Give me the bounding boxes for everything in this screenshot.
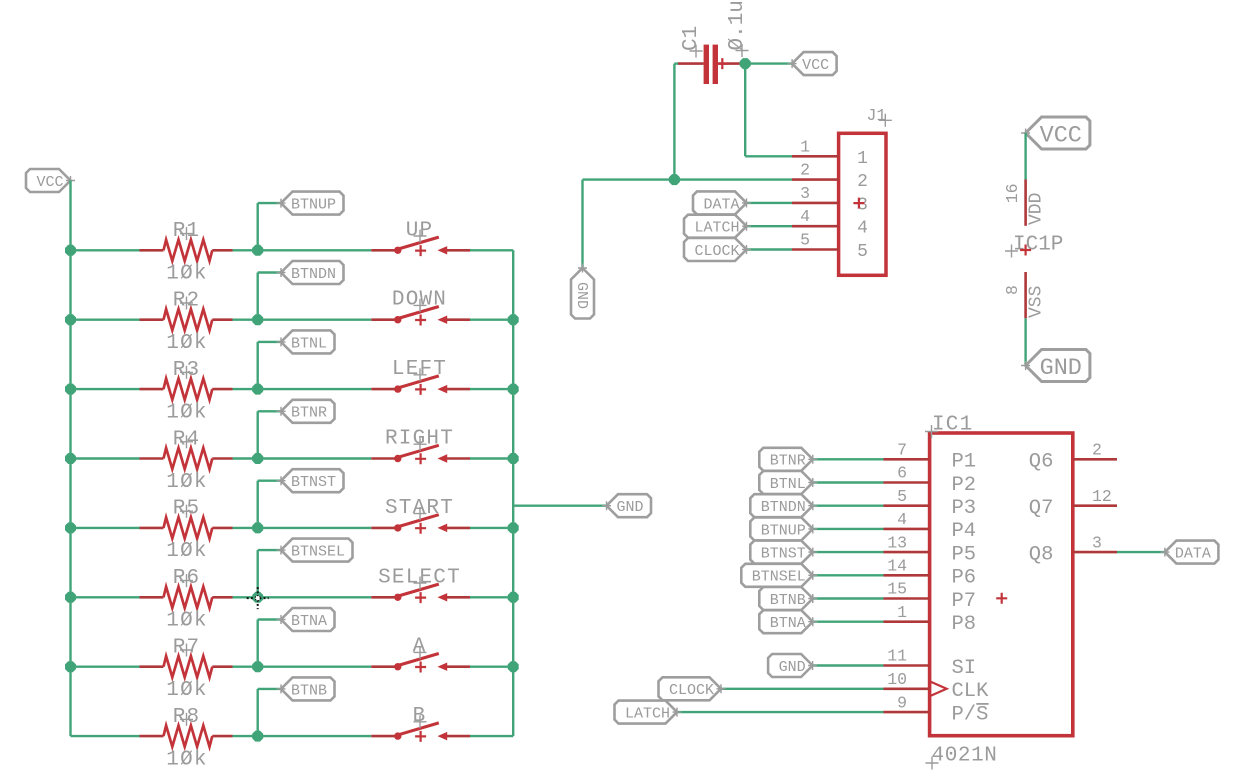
wire GND net to J1 pin 2 [674, 178, 792, 180]
net label BTNB (IC1) [759, 587, 817, 610]
resistor R4 10k [140, 428, 233, 494]
net label BTNL (IC1) [759, 471, 817, 494]
net label BTNSEL [277, 539, 353, 562]
svg-text:RIGHT: RIGHT [385, 428, 454, 451]
net label BTNL [277, 330, 335, 353]
wire VCC to VDD pin [1024, 133, 1026, 180]
wire BTNUP to P4 [813, 528, 884, 530]
junction left bus row 1 [65, 245, 76, 256]
net label BTNA (IC1) [759, 610, 817, 633]
svg-text:LATCH: LATCH [694, 220, 739, 237]
wire C1 to VCC flag [740, 62, 793, 64]
wire bus to R2 [71, 319, 140, 321]
switch LEFT [371, 358, 470, 395]
IC1 value 4021N [926, 745, 998, 770]
svg-text:SI: SI [952, 657, 977, 680]
svg-text:SELECT: SELECT [378, 566, 461, 589]
junction right bus row 4 [508, 453, 519, 464]
J1 pin 3 [792, 184, 868, 216]
junction left bus row 4 [65, 453, 76, 464]
resistor R3 10k [140, 359, 233, 425]
svg-text:7: 7 [897, 441, 907, 460]
net label BTNB [277, 677, 335, 700]
svg-text:1Øk: 1Øk [166, 332, 207, 355]
switch RIGHT [371, 428, 470, 465]
wire right GND bus [512, 250, 514, 736]
wire bus to R1 [71, 249, 140, 251]
junction tap BTNR [252, 453, 263, 464]
svg-text:1Øk: 1Øk [166, 401, 207, 424]
wire BTNL to P2 [813, 481, 884, 483]
svg-text:2: 2 [1092, 441, 1102, 460]
svg-text:Q6: Q6 [1029, 451, 1054, 474]
svg-text:P6: P6 [952, 567, 977, 590]
net label BTNST [277, 469, 344, 492]
wire tap to BTNUP [258, 203, 281, 250]
svg-text:BTNUP: BTNUP [291, 197, 336, 214]
svg-text:2: 2 [800, 161, 810, 180]
svg-text:IC1P: IC1P [1013, 234, 1063, 257]
wire BTNST to P5 [813, 551, 884, 553]
wire CLOCK to J1 [747, 248, 793, 250]
svg-text:GND: GND [573, 282, 590, 309]
wire GND net to GND flag [583, 180, 675, 268]
IC1P pin 8 VSS [1003, 272, 1047, 318]
wire VCC vertical bus (left) [71, 181, 140, 737]
wire R5 to switch START [233, 527, 372, 529]
svg-text:1Øk: 1Øk [166, 748, 207, 771]
svg-text:Q8: Q8 [1029, 543, 1054, 566]
svg-text:BTNDN: BTNDN [761, 499, 806, 516]
wire bus to R6 [71, 596, 140, 598]
junction right bus row 5 [508, 522, 519, 533]
wire switch A to right bus [470, 666, 513, 668]
junction C1/VCC [740, 58, 751, 69]
net label LATCH (J1) [684, 215, 751, 238]
net label BTNR [277, 400, 335, 423]
IC1 pin 14 P6 [884, 557, 977, 590]
wire switch DOWN to right bus [470, 319, 513, 321]
svg-text:1Øk: 1Øk [166, 610, 207, 633]
switch A [371, 636, 470, 673]
wire tap to BTNR [258, 411, 281, 458]
IC1 pin 1 P8 [884, 603, 977, 636]
wire R2 to switch DOWN [233, 319, 372, 321]
net label GND (SI) [768, 654, 817, 677]
svg-text:P8: P8 [952, 613, 977, 636]
junction right bus row 2 [508, 314, 519, 325]
svg-text:VSS: VSS [1027, 286, 1047, 318]
svg-text:BTNDN: BTNDN [291, 266, 336, 283]
wire tap to BTNST [258, 481, 281, 528]
junction GND net [669, 174, 680, 185]
wire R4 to switch RIGHT [233, 457, 372, 459]
net label BTNST (IC1) [750, 541, 817, 564]
resistor R7 10k [140, 637, 233, 703]
wire bus to R7 [71, 666, 140, 668]
svg-text:4: 4 [800, 207, 810, 226]
svg-text:Ø.1uF: Ø.1uF [726, 0, 749, 51]
net label BTNA [277, 608, 335, 631]
power flag VCC (IC1P) [1021, 117, 1090, 150]
IC1 name [925, 414, 973, 439]
IC1 pin 5 P3 [884, 487, 977, 520]
wire tap to BTNDN [258, 273, 281, 320]
svg-text:DATA: DATA [703, 196, 739, 213]
IC1 pin 12 Q7 [1029, 487, 1117, 520]
wire BTNSEL to P6 [813, 574, 884, 576]
wire switch SELECT to right bus [470, 596, 513, 598]
svg-text:BTNSEL: BTNSEL [752, 569, 806, 586]
svg-text:1: 1 [897, 603, 907, 622]
svg-text:P2: P2 [952, 474, 977, 497]
net label CLOCK (J1) [684, 238, 751, 261]
J1 pin 4 [792, 207, 868, 239]
svg-text:BTNB: BTNB [770, 592, 806, 609]
svg-text:2: 2 [857, 172, 868, 192]
svg-text:BTNA: BTNA [291, 613, 327, 630]
svg-text:6: 6 [897, 464, 907, 483]
switch START [371, 497, 470, 534]
wire BTNA to P8 [813, 621, 884, 623]
net label BTNR (IC1) [759, 448, 817, 471]
power flag GND (IC1P) [1021, 350, 1090, 383]
svg-text:5: 5 [857, 242, 868, 262]
svg-text:BTNL: BTNL [770, 476, 806, 493]
wire R7 to switch A [233, 666, 372, 668]
svg-text:1Øk: 1Øk [166, 263, 207, 286]
junction left bus row 5 [65, 522, 76, 533]
svg-text:J1: J1 [867, 106, 887, 125]
svg-text:3: 3 [1092, 533, 1102, 552]
svg-text:CLOCK: CLOCK [669, 682, 714, 699]
junction left bus row 6 [65, 592, 76, 603]
svg-text:A: A [413, 636, 427, 659]
wire tap to BTNB [258, 689, 281, 736]
J1 pin 1 [792, 137, 868, 169]
wire BTNR to P1 [813, 458, 884, 460]
J1 origin cross [853, 198, 864, 209]
junction left bus row 3 [65, 384, 76, 395]
power flag VCC (left) [26, 169, 75, 192]
junction tap BTNUP [252, 245, 263, 256]
svg-text:14: 14 [887, 557, 907, 576]
svg-text:BTNL: BTNL [291, 335, 327, 352]
resistor R6 10k [140, 567, 233, 633]
wire switch LEFT to right bus [470, 388, 513, 390]
svg-text:P3: P3 [952, 497, 977, 520]
junction tap BTNDN [252, 314, 263, 325]
svg-text:LEFT: LEFT [392, 358, 447, 381]
wire tap to BTNSEL [258, 550, 281, 597]
resistor R8 10k [140, 706, 233, 772]
svg-text:1: 1 [800, 137, 810, 156]
net label BTNSEL (IC1) [741, 564, 817, 587]
svg-text:BTNR: BTNR [770, 453, 806, 470]
wire VCC junction down to J1 pin 1 [745, 64, 792, 157]
net label CLOCK (IC1) [659, 677, 726, 700]
svg-text:1Øk: 1Øk [166, 679, 207, 702]
switch B [371, 705, 470, 742]
wire switch RIGHT to right bus [470, 457, 513, 459]
svg-text:13: 13 [887, 533, 907, 552]
wire C1 left to GND corner [674, 64, 678, 180]
svg-text:12: 12 [1092, 487, 1112, 506]
resistor R5 10k [140, 498, 233, 564]
svg-text:CLOCK: CLOCK [694, 243, 739, 260]
net label LATCH (IC1) [615, 701, 682, 724]
svg-text:5: 5 [897, 487, 907, 506]
svg-text:GND: GND [779, 659, 806, 676]
svg-text:CLK: CLK [952, 680, 990, 703]
J1 pin 5 [792, 231, 868, 263]
J1 pin 2 [792, 161, 868, 193]
svg-text:BTNB: BTNB [291, 682, 327, 699]
wire DATA to J1 [747, 202, 793, 204]
wire tap to BTNL [258, 342, 281, 389]
svg-text:4: 4 [857, 219, 868, 239]
resistor R2 10k [140, 290, 233, 356]
J1 name [867, 106, 892, 127]
junction tap BTNST [252, 522, 263, 533]
wire Q8 to DATA [1117, 551, 1165, 553]
IC1P label [1005, 234, 1063, 258]
wire LATCH to J1 [747, 225, 793, 227]
svg-text:1: 1 [857, 149, 868, 169]
wire switch UP to right bus [470, 249, 513, 251]
switch DOWN [371, 289, 470, 326]
net label VCC (top) [788, 52, 837, 75]
svg-text:4: 4 [897, 510, 907, 529]
junction left bus row 2 [65, 314, 76, 325]
net label DATA (J1) [693, 191, 751, 214]
wire right bus to GND [513, 505, 606, 507]
svg-text:15: 15 [887, 580, 907, 599]
wire CLOCK to pin 10 [721, 688, 884, 690]
wire BTNB to P7 [813, 597, 884, 599]
svg-text:BTNR: BTNR [291, 405, 327, 422]
junction left bus row 7 [65, 661, 76, 672]
net label DATA (IC1) [1160, 541, 1218, 564]
wire bus to R3 [71, 388, 140, 390]
wire switch START to right bus [470, 527, 513, 529]
svg-text:P5: P5 [952, 543, 977, 566]
svg-text:VCC: VCC [36, 174, 63, 191]
svg-text:8: 8 [1003, 285, 1022, 295]
IC1 pin 15 P7 [884, 580, 977, 613]
svg-text:UP: UP [406, 219, 434, 242]
svg-text:P4: P4 [952, 520, 977, 543]
net label BTNDN [277, 261, 344, 284]
svg-text:B: B [413, 705, 427, 728]
IC1P pin 16 VDD [1003, 180, 1047, 226]
power flag GND (middle) [602, 494, 651, 517]
svg-text:1Øk: 1Øk [166, 471, 207, 494]
power flag GND (top, vertical) [571, 264, 594, 319]
IC1 pin 13 P5 [884, 533, 977, 566]
svg-text:GND: GND [1040, 355, 1082, 382]
svg-text:VCC: VCC [802, 57, 829, 74]
junction tap BTNL [252, 384, 263, 395]
junction right bus row 7 [508, 661, 519, 672]
svg-text:IC1: IC1 [932, 414, 973, 437]
IC1 origin cross [996, 593, 1007, 604]
IC1 pin 6 P2 [884, 464, 977, 497]
wire GND to SI [813, 664, 884, 666]
wire bus to R4 [71, 457, 140, 459]
wire R3 to switch LEFT [233, 388, 372, 390]
svg-text:4021N: 4021N [932, 745, 998, 768]
svg-text:DATA: DATA [1175, 546, 1211, 563]
switch UP [371, 219, 470, 256]
svg-text:3: 3 [800, 184, 810, 203]
wire R6 to switch SELECT [233, 596, 372, 598]
svg-text:DOWN: DOWN [392, 289, 447, 312]
connector J1 outline [839, 133, 886, 275]
svg-text:VDD: VDD [1027, 193, 1047, 225]
wire switch B to right bus [470, 735, 513, 737]
IC1 pin 4 P4 [884, 510, 977, 543]
IC1 pin 2 Q6 [1029, 441, 1117, 474]
svg-text:VCC: VCC [1040, 123, 1082, 150]
junction right bus row 3 [508, 384, 519, 395]
svg-text:LATCH: LATCH [625, 706, 670, 723]
net label BTNDN (IC1) [750, 494, 817, 517]
svg-text:BTNSEL: BTNSEL [291, 544, 345, 561]
IC1 pin 7 P1 [884, 441, 977, 474]
svg-text:BTNST: BTNST [291, 474, 336, 491]
cursor crosshair at SELECT junction [247, 587, 269, 609]
svg-text:BTNA: BTNA [770, 615, 806, 632]
IC1 pin 3 Q8 [1029, 533, 1117, 566]
svg-text:11: 11 [887, 647, 907, 666]
wire R1 to switch UP [233, 249, 372, 251]
svg-text:BTNST: BTNST [761, 546, 806, 563]
svg-text:C1: C1 [680, 26, 703, 51]
svg-text:P/S: P/S [952, 703, 989, 726]
svg-text:START: START [385, 497, 454, 520]
wire tap to BTNA [258, 620, 281, 667]
junction tap BTNA [252, 661, 263, 672]
svg-text:BTNUP: BTNUP [761, 522, 806, 539]
IC1 pin 11 SI [884, 647, 977, 680]
net label BTNUP [277, 192, 344, 215]
wire VSS to GND [1024, 318, 1026, 365]
capacitor C1 0.1uF [678, 0, 749, 84]
IC IC1 outline [930, 433, 1073, 736]
wire R8 to switch B [233, 735, 372, 737]
svg-text:16: 16 [1003, 183, 1022, 203]
svg-text:Q7: Q7 [1029, 497, 1054, 520]
IC1 pin 10 CLK [884, 670, 990, 703]
net label BTNUP (IC1) [750, 517, 817, 540]
svg-text:1Øk: 1Øk [166, 540, 207, 563]
svg-text:GND: GND [617, 499, 644, 516]
svg-text:9: 9 [897, 693, 907, 712]
junction tap BTNSEL [252, 592, 263, 603]
resistor R1 10k [140, 220, 233, 286]
wire LATCH to pin 9 [677, 711, 884, 713]
svg-text:10: 10 [887, 670, 907, 689]
IC1 pin 9 P/S [884, 693, 989, 726]
svg-text:P7: P7 [952, 590, 977, 613]
svg-text:5: 5 [800, 231, 810, 250]
svg-text:P1: P1 [952, 451, 977, 474]
switch SELECT [371, 566, 470, 603]
junction tap BTNB [252, 731, 263, 742]
wire bus to R5 [71, 527, 140, 529]
junction right bus row 6 [508, 592, 519, 603]
wire BTNDN to P3 [813, 505, 884, 507]
